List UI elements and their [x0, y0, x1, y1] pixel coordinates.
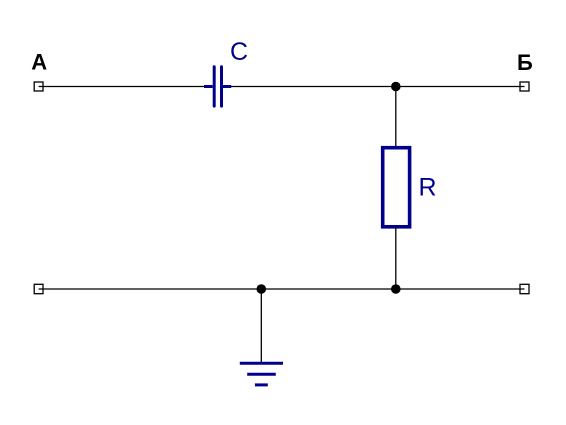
wire from resistor bottom to bottom rail: [395, 227, 397, 289]
wire top-right from capacitor to terminal B: [231, 86, 525, 88]
junction dot (resistor bottom): [391, 284, 401, 294]
terminal B (top-right): [520, 82, 529, 91]
wire from ground tap down to ground symbol: [260, 289, 262, 363]
junction dot (ground tap): [257, 284, 267, 294]
svg-text:C: C: [230, 38, 248, 66]
svg-text:Б: Б: [517, 50, 533, 75]
junction dot top (node B / resistor top): [391, 82, 401, 92]
resistor R: [383, 148, 410, 227]
terminal bottom-right: [520, 284, 529, 293]
bottom wire rail: [39, 288, 525, 290]
svg-text:А: А: [31, 50, 47, 75]
svg-text:R: R: [419, 174, 437, 202]
wire from top junction to resistor: [395, 87, 397, 148]
ground: [240, 363, 283, 385]
terminal A (top-left): [34, 82, 43, 91]
terminal bottom-left: [34, 284, 43, 293]
wire top-left from terminal A to capacitor: [39, 86, 204, 88]
capacitor C: [204, 67, 231, 106]
